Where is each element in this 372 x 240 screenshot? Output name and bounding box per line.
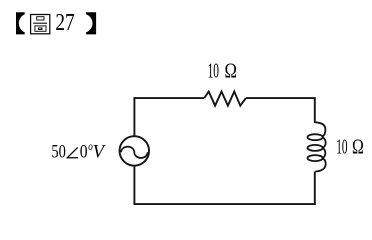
inductor L coil top hook [315,122,325,136]
svg-text:Ω: Ω [225,58,237,82]
angle symbol of phasor [67,148,78,158]
svg-text:V: V [93,142,107,163]
inductor loop 1 [308,134,323,140]
AC source circle V1 [120,136,150,166]
left lenticular bracket of title [16,12,25,34]
wire left upper segment [133,97,135,136]
wire right lower segment [314,172,316,206]
CJK character 圖 (figure) drawn as strokes [31,15,50,34]
wire bottom segment [134,203,316,205]
svg-text:27: 27 [55,10,74,36]
svg-text:50: 50 [51,142,66,163]
svg-text:Ω: Ω [352,134,364,158]
svg-text:0: 0 [80,142,88,163]
wire left lower segment [133,166,135,205]
inductor loop 2 [308,145,323,151]
wire top-right segment [246,97,315,99]
inductor right connector arc 2 [323,148,326,158]
inductor right connector arc 1 [323,137,326,148]
wire right upper segment [314,97,316,123]
resistor R 10ohm zigzag [204,92,246,106]
wire top-left segment [134,97,204,99]
inductor loop 3 [308,155,323,161]
svg-text:10: 10 [336,134,347,158]
right lenticular bracket of title [86,12,96,34]
sine wave inside source [121,147,147,158]
svg-text:10: 10 [208,58,219,82]
inductor coil bottom hook [315,158,325,171]
